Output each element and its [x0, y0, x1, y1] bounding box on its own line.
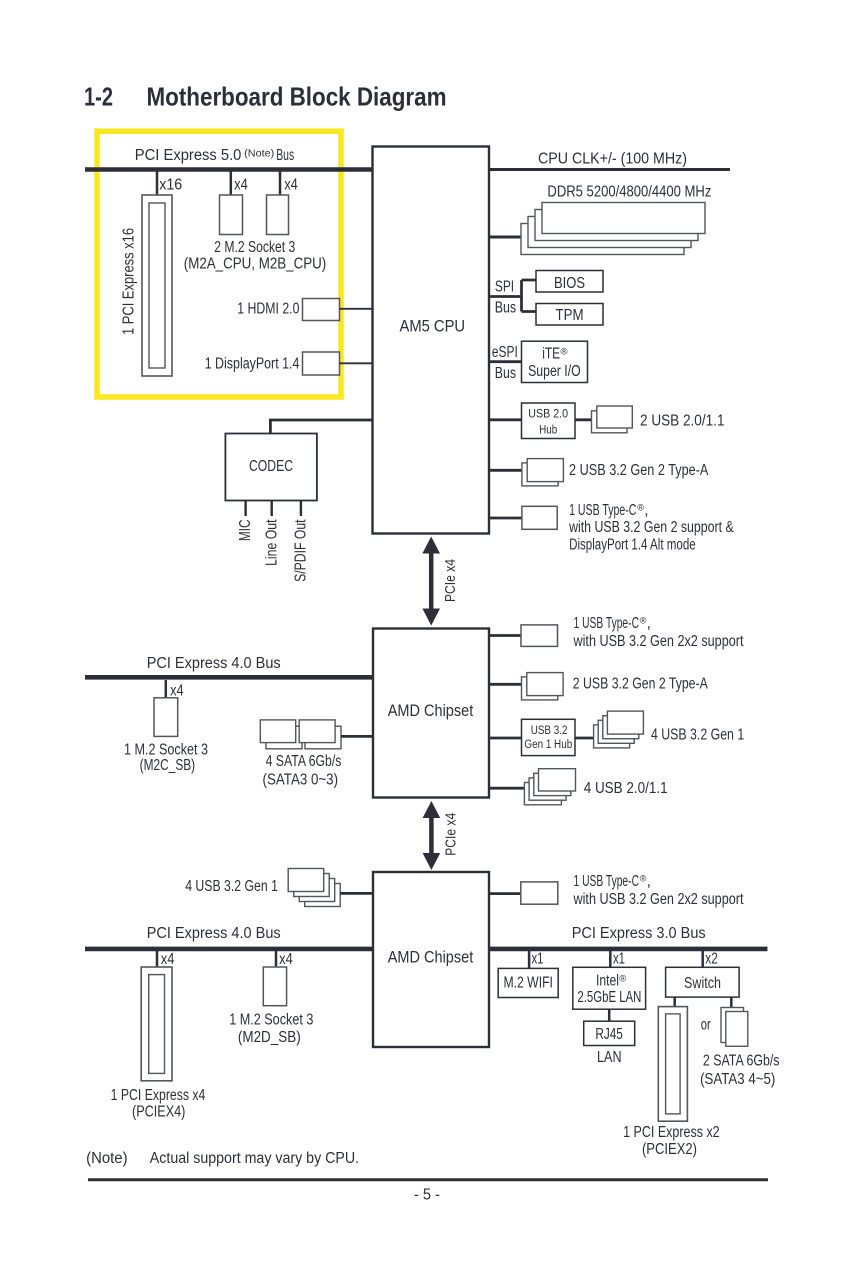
svg-text:2 SATA 6Gb/s: 2 SATA 6Gb/s: [703, 1053, 780, 1070]
svg-text:Bus: Bus: [276, 147, 294, 164]
ports: 4 USB 3.2 Gen1 stack: [594, 725, 630, 748]
svg-text:x1: x1: [613, 951, 625, 968]
svg-text:M.2 WIFI: M.2 WIFI: [503, 975, 553, 992]
svg-text:4 USB 3.2 Gen 1: 4 USB 3.2 Gen 1: [185, 878, 278, 895]
svg-text:or: or: [701, 1016, 711, 1033]
bus: CPU CLK: [489, 168, 730, 171]
svg-text:Bus: Bus: [495, 365, 516, 382]
wire: chipset1-gen1hub: [489, 737, 522, 740]
svg-text:4 USB 3.2 Gen 1: 4 USB 3.2 Gen 1: [651, 727, 744, 744]
memory: DIMM stack: [521, 224, 684, 255]
svg-text:Line Out: Line Out: [263, 519, 280, 566]
port: USB Type-C: [522, 506, 557, 529]
wire: eSPI bus: [489, 360, 522, 363]
chip: Intel 2.5GbE LAN: [573, 967, 646, 1009]
bus: PCI Express 3.0: [489, 947, 768, 952]
wire: SPI bus: [489, 280, 536, 312]
socket: M2A_CPU: [220, 195, 243, 235]
wire: CPU-TypeC: [489, 517, 522, 520]
svg-text:x2: x2: [705, 951, 718, 968]
svg-text:PCIe x4: PCIe x4: [443, 813, 460, 856]
svg-text:1 USB Type-C: 1 USB Type-C: [574, 615, 640, 632]
svg-text:1-2: 1-2: [84, 82, 113, 112]
socket: M2D_SB: [263, 967, 286, 1006]
wire: hub-gen1 ports: [575, 737, 594, 740]
svg-text:1 DisplayPort 1.4: 1 DisplayPort 1.4: [205, 356, 300, 373]
svg-text:2 USB 2.0/1.1: 2 USB 2.0/1.1: [640, 413, 725, 430]
svg-text:®: ®: [561, 347, 568, 358]
block: AMD Chipset 2: [373, 872, 489, 1047]
svg-text:PCI Express 3.0 Bus: PCI Express 3.0 Bus: [572, 925, 706, 942]
svg-text:Motherboard Block Diagram: Motherboard Block Diagram: [147, 82, 447, 112]
svg-text:Bus: Bus: [495, 300, 517, 317]
svg-text:4 USB 2.0/1.1: 4 USB 2.0/1.1: [584, 780, 668, 797]
wire: x4 drop M2C: [165, 680, 168, 699]
svg-text:2 USB 3.2 Gen 2 Type-A: 2 USB 3.2 Gen 2 Type-A: [569, 462, 709, 479]
svg-text:USB 2.0: USB 2.0: [528, 409, 568, 421]
wire: x4 drop M2A: [230, 172, 233, 197]
svg-text:x1: x1: [532, 951, 544, 968]
svg-text:,: ,: [644, 502, 648, 519]
wire: chipset1-USB32gen2: [489, 683, 523, 686]
svg-text:eSPI: eSPI: [492, 344, 518, 361]
svg-text:with USB 3.2 Gen 2x2 support: with USB 3.2 Gen 2x2 support: [573, 633, 744, 650]
svg-text:(Note): (Note): [244, 148, 274, 160]
wire: CPU-DIMM: [489, 236, 523, 239]
port: USB Type-C (chipset2): [521, 882, 558, 904]
svg-text:with USB 3.2 Gen 2 support &: with USB 3.2 Gen 2 support &: [568, 519, 734, 536]
svg-text:x4: x4: [284, 176, 298, 193]
svg-text:,: ,: [647, 615, 651, 632]
svg-text:CODEC: CODEC: [249, 458, 293, 475]
wire: x1 drop WIFI: [528, 951, 531, 969]
svg-text:1 PCI Express x2: 1 PCI Express x2: [623, 1124, 720, 1141]
wire: MIC stub: [244, 501, 246, 517]
svg-text:1 PCI Express x4: 1 PCI Express x4: [111, 1087, 206, 1104]
svg-text:LAN: LAN: [597, 1049, 622, 1066]
svg-text:TPM: TPM: [556, 307, 584, 324]
chip: CODEC: [225, 434, 317, 501]
svg-text:(M2C_SB): (M2C_SB): [140, 757, 196, 774]
svg-text:Actual support may vary by CPU: Actual support may vary by CPU.: [150, 1150, 359, 1167]
svg-text:1 PCI Express x16: 1 PCI Express x16: [121, 228, 138, 335]
wire: S/PDIF stub: [300, 501, 302, 517]
wire: Line Out stub: [271, 501, 273, 517]
footer rule: [88, 1178, 768, 1181]
bus: PCI Express 5.0: [85, 167, 373, 172]
chip: RJ45: [584, 1021, 635, 1045]
svg-text:1 USB Type-C: 1 USB Type-C: [569, 502, 636, 519]
svg-text:CPU CLK+/- (100 MHz): CPU CLK+/- (100 MHz): [538, 151, 687, 168]
wire: x4 drop M2D: [275, 951, 278, 968]
svg-text:Gen 1 Hub: Gen 1 Hub: [524, 739, 572, 751]
wire: chipset2-TypeC: [489, 892, 521, 895]
svg-text:x4: x4: [170, 683, 184, 700]
chip: USB 3.2 Gen 1 Hub: [522, 719, 576, 755]
svg-text:AMD Chipset: AMD Chipset: [388, 702, 474, 720]
ports: 4 USB 2.0 stack: [524, 783, 561, 805]
svg-text:1 USB Type-C: 1 USB Type-C: [574, 873, 640, 890]
svg-text:AM5 CPU: AM5 CPU: [400, 318, 466, 336]
arrow: PCIe x4 chipset1-chipset2: [423, 801, 441, 870]
svg-text:,: ,: [647, 873, 651, 890]
svg-text:(M2D_SB): (M2D_SB): [238, 1029, 301, 1046]
svg-text:USB 3.2: USB 3.2: [531, 725, 568, 737]
slot: PCIEX4: [141, 967, 172, 1081]
svg-text:(PCIEX2): (PCIEX2): [642, 1141, 697, 1158]
chip: iTE Super I/O: [522, 341, 588, 382]
wire: gen1 ports-chipset2: [340, 892, 373, 895]
svg-text:PCIe x4: PCIe x4: [442, 559, 459, 602]
svg-text:2 M.2 Socket 3: 2 M.2 Socket 3: [214, 239, 295, 256]
wire: DP-CPU: [340, 362, 373, 364]
ports: 2 USB 3.2 Gen2 stack: [522, 677, 558, 700]
wire: CPU-USB32gen2: [489, 469, 523, 472]
svg-text:(SATA3 0~3): (SATA3 0~3): [263, 771, 339, 788]
svg-text:Super I/O: Super I/O: [528, 363, 581, 380]
arrow: PCIe x4 CPU-chipset1: [422, 537, 440, 626]
svg-text:MIC: MIC: [237, 520, 254, 542]
svg-text:S/PDIF Out: S/PDIF Out: [293, 519, 310, 582]
block: AMD Chipset 1: [373, 629, 489, 798]
wire: chipset1-USB20: [489, 787, 526, 790]
svg-text:4 SATA 6Gb/s: 4 SATA 6Gb/s: [266, 753, 342, 770]
socket: M2B_CPU: [267, 195, 289, 235]
bus: PCI Express 4.0 (chipset2): [85, 947, 373, 952]
port: HDMI: [303, 299, 340, 321]
svg-text:(SATA3 4~5): (SATA3 4~5): [700, 1071, 775, 1088]
chip: BIOS: [536, 271, 603, 293]
svg-text:1 M.2 Socket 3: 1 M.2 Socket 3: [229, 1012, 313, 1029]
svg-text:(PCIEX4): (PCIEX4): [132, 1104, 185, 1121]
highlight box (yellow): [97, 131, 341, 397]
svg-text:x4: x4: [279, 951, 293, 968]
svg-text:2 USB 3.2 Gen 2 Type-A: 2 USB 3.2 Gen 2 Type-A: [573, 676, 709, 693]
wire: x4 drop PCIEX4: [156, 951, 159, 968]
svg-text:x16: x16: [159, 176, 182, 193]
svg-text:DDR5 5200/4800/4400 MHz: DDR5 5200/4800/4400 MHz: [547, 183, 711, 200]
wire: CPU-USB2hub: [489, 418, 522, 421]
wire: x16 drop: [156, 172, 159, 197]
ports: 2 USB 2.0 stack: [592, 411, 628, 433]
wire: switch-SATA: [730, 997, 733, 1008]
wire: chipset1-TypeC: [489, 634, 521, 637]
svg-text:PCI Express 5.0: PCI Express 5.0: [135, 147, 242, 164]
wire: x2 drop Switch: [701, 951, 704, 968]
svg-text:2.5GbE LAN: 2.5GbE LAN: [577, 989, 641, 1006]
wire: hub-USB2 ports: [575, 418, 593, 421]
block: AM5 CPU: [373, 147, 490, 534]
wire: x1 drop LAN: [609, 951, 612, 968]
chip: USB 2.0 Hub: [522, 403, 576, 439]
svg-text:RJ45: RJ45: [595, 1026, 623, 1043]
svg-text:AMD Chipset: AMD Chipset: [388, 948, 474, 966]
ports: 2 USB 3.2 Gen2 stack: [522, 463, 558, 486]
svg-text:DisplayPort 1.4 Alt mode: DisplayPort 1.4 Alt mode: [569, 537, 696, 554]
svg-text:(M2A_CPU, M2B_CPU): (M2A_CPU, M2B_CPU): [184, 256, 327, 273]
svg-text:- 5 -: - 5 -: [414, 1187, 440, 1204]
ports: 2 SATA stack: [721, 1008, 744, 1043]
slot: PCIEX2: [658, 1007, 687, 1122]
socket: M2C_SB: [154, 698, 178, 737]
ports: 4 USB 3.2 Gen1 stack (chipset2): [305, 884, 341, 907]
svg-text:SPI: SPI: [495, 278, 514, 295]
bus: PCI Express 4.0 (chipset1): [85, 675, 373, 680]
wire: Intel-RJ45: [608, 1009, 611, 1022]
svg-text:Switch: Switch: [684, 975, 721, 992]
svg-text:Hub: Hub: [539, 425, 557, 437]
wire: switch-PCIEX2: [673, 997, 676, 1007]
ports: 4 SATA stack: [266, 726, 302, 749]
svg-text:®: ®: [619, 974, 626, 985]
svg-text:(Note): (Note): [86, 1150, 128, 1167]
svg-text:iTE: iTE: [542, 346, 560, 363]
wire: x4 drop M2B: [279, 172, 282, 197]
svg-text:x4: x4: [234, 176, 248, 193]
slot: PCI Express x16: [142, 195, 172, 376]
svg-text:Intel: Intel: [596, 973, 619, 990]
wire: HDMI-CPU: [340, 308, 373, 310]
svg-text:PCI Express 4.0 Bus: PCI Express 4.0 Bus: [147, 655, 281, 672]
chip: TPM: [536, 304, 603, 326]
svg-text:1 HDMI 2.0: 1 HDMI 2.0: [237, 300, 299, 317]
wire: SATA-chipset1: [341, 735, 373, 738]
port: USB Type-C 2x2: [521, 625, 558, 647]
port: DisplayPort: [303, 352, 340, 375]
wire: CPU-CODEC: [270, 420, 372, 434]
chip: M.2 WIFI: [498, 968, 558, 997]
svg-text:PCI Express 4.0 Bus: PCI Express 4.0 Bus: [147, 925, 281, 942]
chip: Switch: [666, 967, 740, 997]
svg-text:with USB 3.2 Gen 2x2 support: with USB 3.2 Gen 2x2 support: [573, 891, 744, 908]
svg-text:BIOS: BIOS: [554, 275, 585, 292]
svg-text:x4: x4: [161, 951, 175, 968]
